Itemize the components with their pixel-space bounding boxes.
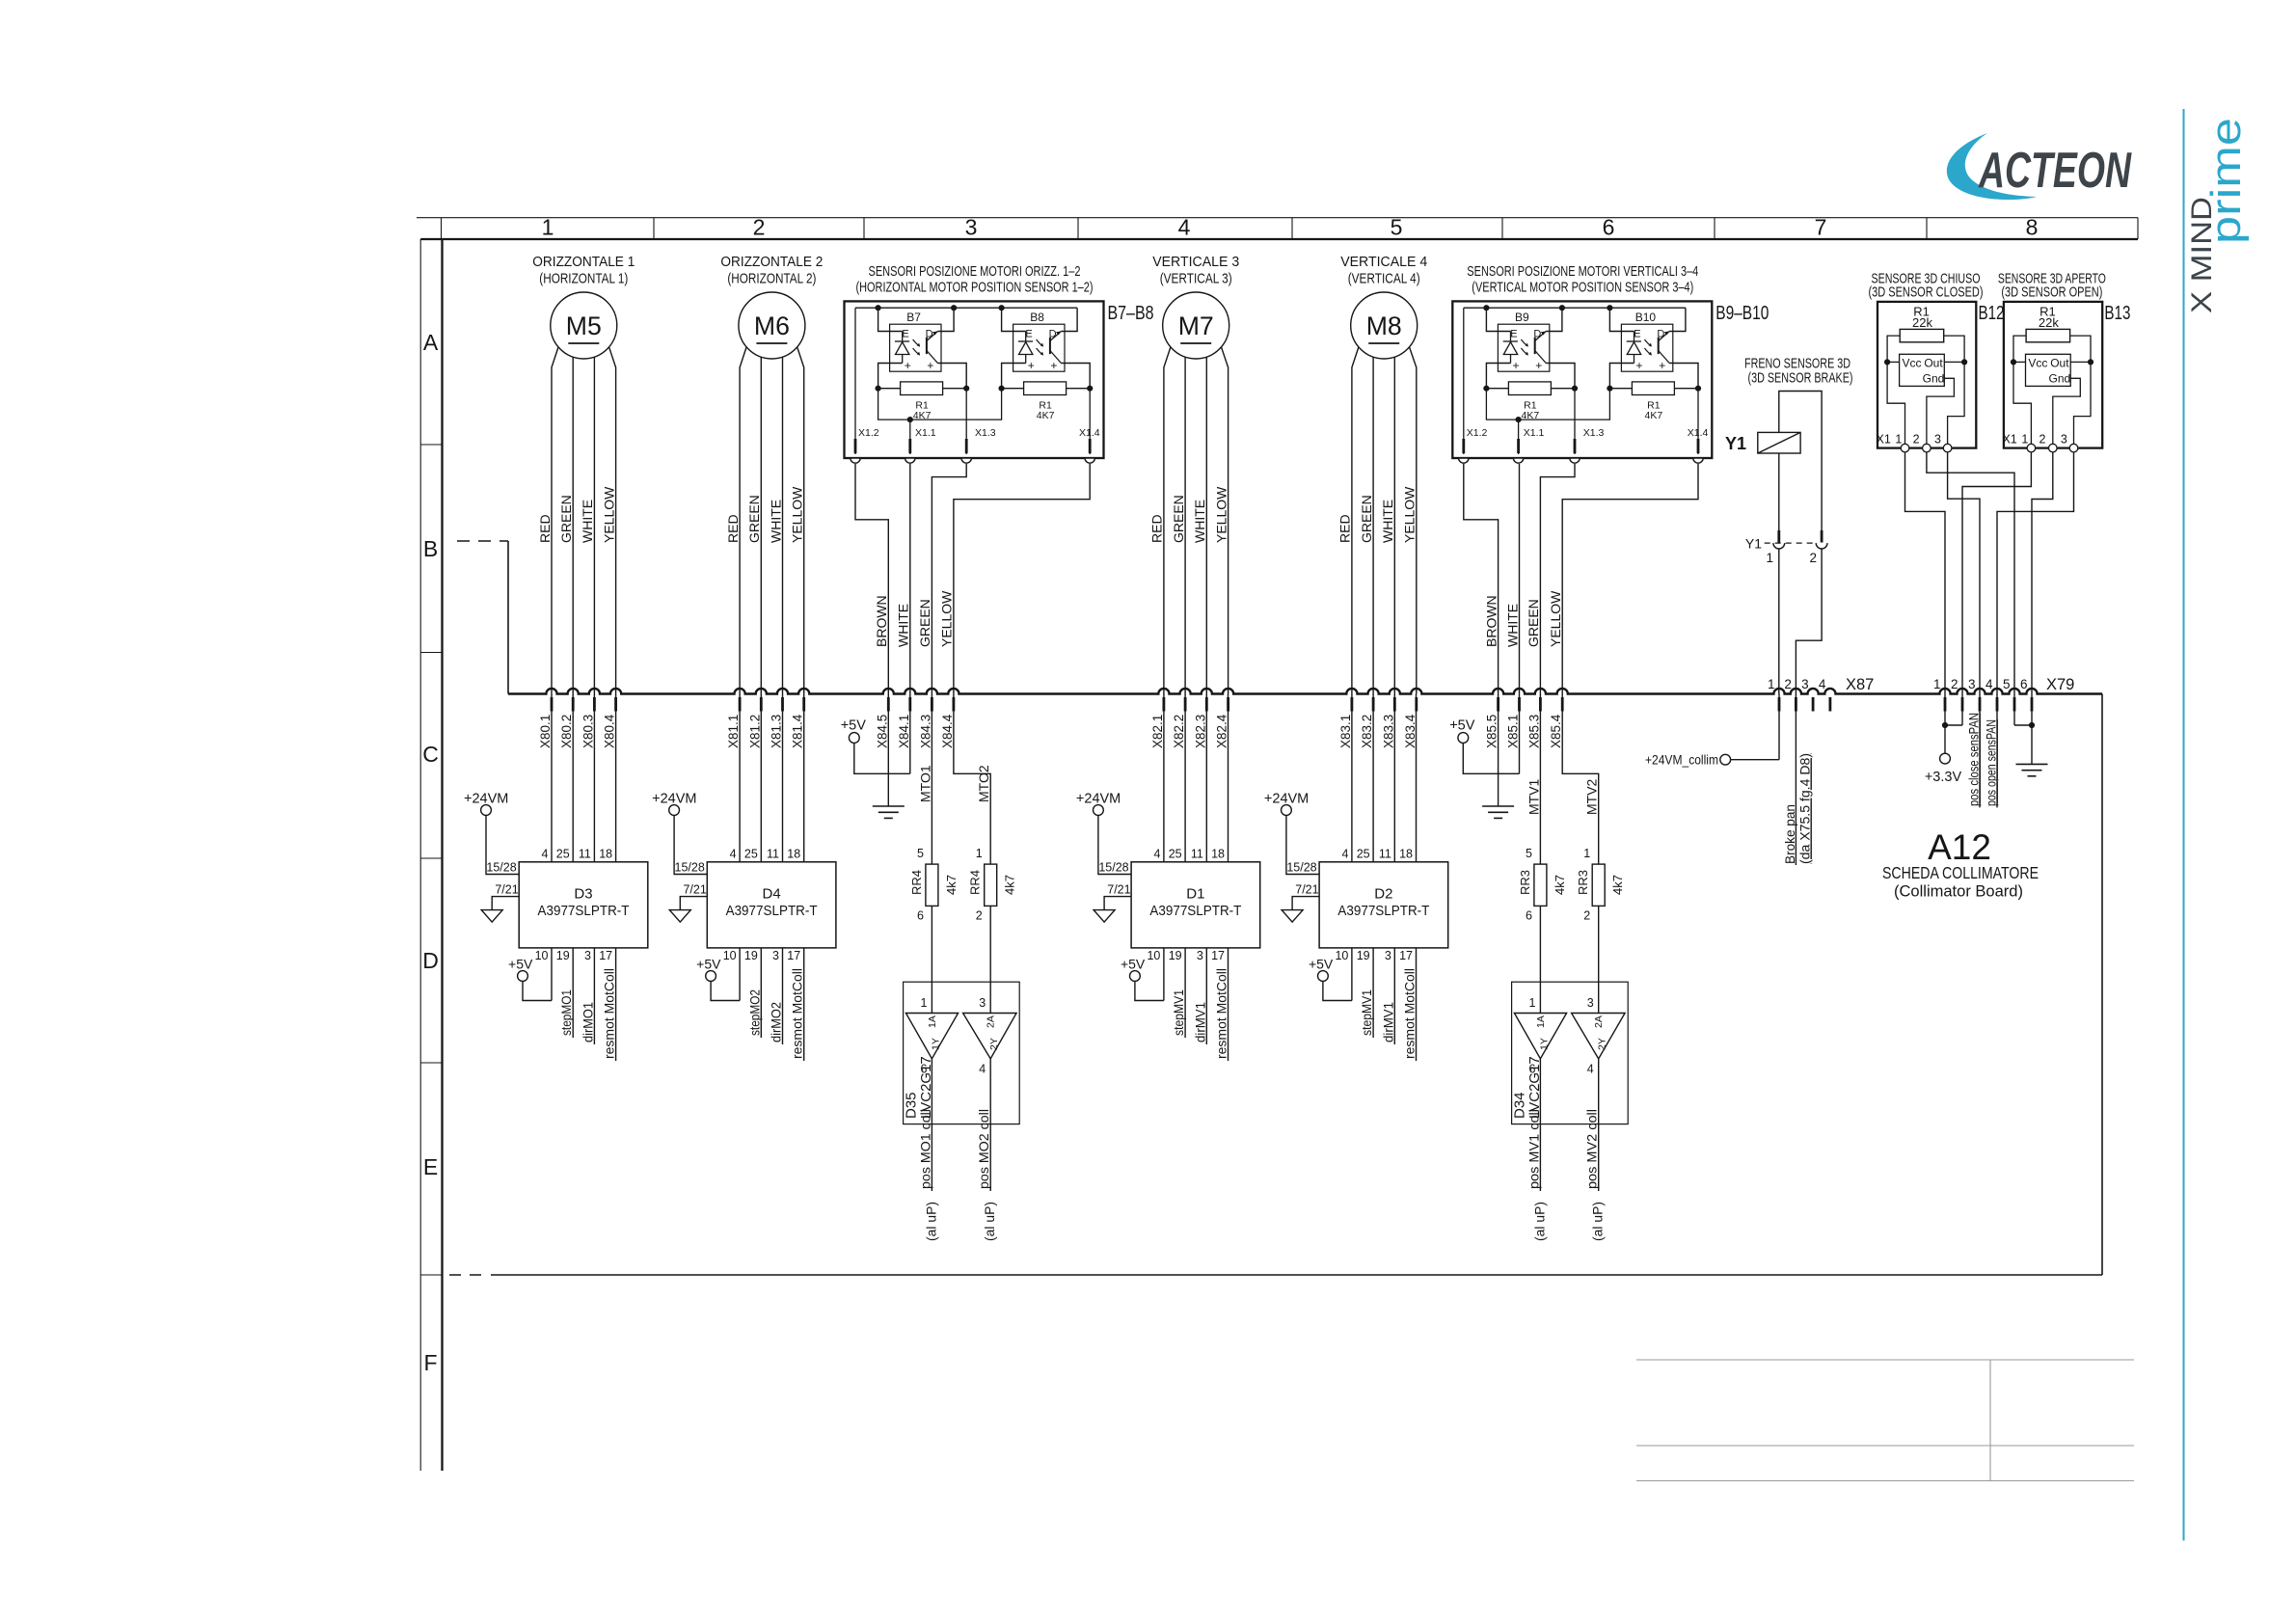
svg-text:RED: RED <box>1149 514 1165 543</box>
svg-text:7/21: 7/21 <box>495 883 518 897</box>
svg-text:MTO1: MTO1 <box>917 765 932 802</box>
wire top supply rail <box>1464 307 1686 309</box>
svg-text:(3D SENSOR OPEN): (3D SENSOR OPEN) <box>2001 284 2102 301</box>
svg-text:3: 3 <box>584 949 591 962</box>
svg-text:X1.2: X1.2 <box>858 427 879 439</box>
svg-text:YELLOW: YELLOW <box>1548 590 1563 647</box>
wire M7 YELLOW lead <box>1222 347 1229 694</box>
svg-text:+5V: +5V <box>508 957 533 972</box>
svg-text:X1.3: X1.3 <box>975 427 996 439</box>
svg-text:resmot MotColl: resmot MotColl <box>1214 968 1229 1059</box>
svg-text:(3D SENSOR CLOSED): (3D SENSOR CLOSED) <box>1869 284 1984 301</box>
LED of B9 <box>1503 340 1518 342</box>
svg-text:1: 1 <box>2021 433 2028 447</box>
svg-text:X80.4: X80.4 <box>603 714 617 748</box>
wire +5V to pin 10 <box>523 981 552 1000</box>
svg-text:X84.4: X84.4 <box>940 714 955 748</box>
svg-text:18: 18 <box>787 848 800 861</box>
svg-text:15/28: 15/28 <box>675 861 705 875</box>
svg-text:(VERTICAL 4): (VERTICAL 4) <box>1348 271 1420 287</box>
svg-text:RED: RED <box>725 514 741 543</box>
svg-text:dirMV1: dirMV1 <box>1380 1002 1395 1042</box>
svg-text:X85.4: X85.4 <box>1549 714 1563 748</box>
svg-text:4K7: 4K7 <box>1037 410 1055 421</box>
A12 board boundary bottom edge <box>491 1274 2102 1276</box>
driver IC D1 A3977SLPTR-T <box>1131 862 1260 948</box>
svg-text:B7–B8: B7–B8 <box>1108 303 1154 324</box>
A12 board boundary left riser and dashed continuation <box>507 541 509 694</box>
wire RR3 to buffer <box>1539 906 1541 1013</box>
wire M7 GREEN lead <box>1184 357 1186 693</box>
svg-text:2: 2 <box>1951 677 1958 691</box>
svg-text:18: 18 <box>1211 848 1225 861</box>
svg-text:X82.1: X82.1 <box>1150 715 1165 748</box>
resistor R1 4K7 of B9 <box>1486 388 1508 390</box>
svg-text:(HORIZONTAL 2): (HORIZONTAL 2) <box>727 271 816 287</box>
wire MTO2 <box>954 694 990 865</box>
svg-text:X87: X87 <box>1846 676 1874 693</box>
wire M5 GREEN lead <box>572 357 574 693</box>
buffer gate 2 of D35 <box>963 1014 1017 1059</box>
svg-text:3: 3 <box>772 949 779 962</box>
svg-text:+: + <box>1535 359 1542 372</box>
wire Y1 coil loop <box>1779 392 1822 532</box>
wire B10 anode to common <box>1609 364 1634 389</box>
ground of D4 (7/21) <box>680 897 707 910</box>
wire pin 18 from bus <box>1416 694 1418 862</box>
wire B10 collector riser to rail <box>1669 308 1686 331</box>
svg-text:SENSORI POSIZIONE MOTORI VERTI: SENSORI POSIZIONE MOTORI VERTICALI 3–4 <box>1467 263 1698 280</box>
svg-text:4: 4 <box>1178 215 1191 240</box>
wire output 1 of D35 (pos MO1 coll) <box>931 1059 932 1191</box>
svg-text:4: 4 <box>979 1063 986 1076</box>
svg-text:1A: 1A <box>927 1015 938 1028</box>
wire Y1 coil to contact 1 <box>1778 453 1780 531</box>
svg-text:19: 19 <box>744 949 758 962</box>
buffer gate 2 of D34 <box>1572 1014 1626 1059</box>
svg-text:15/28: 15/28 <box>486 861 516 875</box>
svg-text:3: 3 <box>1801 677 1809 691</box>
svg-text:F: F <box>423 1350 437 1375</box>
wire B8 emitter to output node <box>1061 364 1090 389</box>
svg-text:X1.3: X1.3 <box>1583 427 1605 439</box>
svg-text:WHITE: WHITE <box>1380 500 1395 543</box>
svg-text:X83.4: X83.4 <box>1403 714 1418 748</box>
resistor R1 4K7 of B7 <box>878 388 901 390</box>
wire X79.3 pos close sensPAN <box>1979 694 1981 808</box>
svg-text:25: 25 <box>744 848 758 861</box>
svg-text:X81.3: X81.3 <box>770 715 784 748</box>
ground of D1 (7/21) <box>1104 897 1131 910</box>
wire stepMO2 (pin 19) <box>760 948 762 1038</box>
wire pin X1.2 to bus <box>1464 464 1499 694</box>
svg-text:4: 4 <box>1985 677 1993 691</box>
wire M7 RED lead <box>1164 347 1171 694</box>
svg-text:C: C <box>422 742 439 767</box>
wire R1 left to Vcc rail <box>1887 336 1904 448</box>
svg-text:X80.2: X80.2 <box>559 715 574 748</box>
wire MTV1 <box>1539 694 1541 865</box>
wire stepMV1 (pin 19) <box>1372 948 1374 1038</box>
wire +5V to connector <box>1463 743 1519 773</box>
wire pin 11 from bus <box>782 694 784 862</box>
wire +24VM to pin 15/28 <box>1098 815 1131 874</box>
svg-text:X82.4: X82.4 <box>1215 714 1229 748</box>
svg-text:(al uP): (al uP) <box>923 1202 938 1241</box>
svg-text:X81.1: X81.1 <box>726 715 741 748</box>
svg-text:3: 3 <box>1197 949 1203 962</box>
svg-text:X1.4: X1.4 <box>1079 427 1100 439</box>
svg-text:4k7: 4k7 <box>1553 875 1567 895</box>
wire M8 WHITE lead <box>1393 357 1395 693</box>
svg-text:11: 11 <box>767 848 779 861</box>
svg-text:stepMV1: stepMV1 <box>1359 989 1374 1036</box>
svg-text:22k: 22k <box>2039 315 2059 330</box>
svg-text:15/28: 15/28 <box>1098 861 1128 875</box>
wire B13 pin3 to X79.4 <box>1997 452 2074 694</box>
svg-text:10: 10 <box>535 949 549 962</box>
svg-text:+: + <box>1635 359 1642 372</box>
svg-text:A: A <box>423 330 439 355</box>
svg-text:1: 1 <box>542 215 554 240</box>
wire RR4 to buffer <box>931 906 932 1013</box>
svg-text:ACTEON: ACTEON <box>1978 143 2132 199</box>
wire +5V to pin 10 <box>711 981 740 1000</box>
svg-text:2A: 2A <box>1593 1015 1605 1028</box>
wire pin 4 from bus <box>1351 694 1353 862</box>
wire M5 RED lead <box>552 347 558 694</box>
svg-text:resmot MotColl: resmot MotColl <box>602 968 617 1059</box>
buffer IC D35 LVC2G17 <box>904 982 1020 1123</box>
svg-text:X85.3: X85.3 <box>1526 715 1541 748</box>
svg-text:1: 1 <box>1766 551 1773 565</box>
svg-text:+5V: +5V <box>841 718 867 734</box>
svg-text:BROWN: BROWN <box>874 595 889 647</box>
svg-text:19: 19 <box>1169 949 1182 962</box>
svg-text:RED: RED <box>537 514 553 543</box>
svg-text:resmot MotColl: resmot MotColl <box>790 968 805 1059</box>
svg-text:D: D <box>422 948 439 973</box>
driver IC D2 A3977SLPTR-T <box>1319 862 1448 948</box>
wire B10 output drop <box>1697 389 1699 454</box>
svg-text:WHITE: WHITE <box>768 500 783 543</box>
light arrows of B8 <box>1037 339 1043 346</box>
svg-text:A12: A12 <box>1928 827 1991 867</box>
buffer IC D34 LVC2G17 <box>1512 982 1629 1123</box>
svg-text:WHITE: WHITE <box>1504 604 1520 647</box>
drawing frame <box>417 217 2138 219</box>
svg-text:(al uP): (al uP) <box>1531 1202 1547 1241</box>
wire M6 RED lead <box>740 347 746 694</box>
wire Y1 contact 1 to X87.1 <box>1778 549 1780 694</box>
svg-text:D2: D2 <box>1374 886 1392 903</box>
svg-text:4k7: 4k7 <box>1003 875 1017 895</box>
wire pin 4 from bus <box>739 694 741 862</box>
svg-text:X84.3: X84.3 <box>918 715 932 748</box>
svg-text:pos MO2 coll: pos MO2 coll <box>976 1109 991 1189</box>
light arrows of B10 <box>1644 339 1651 346</box>
sensor element box of B13 <box>2026 354 2071 386</box>
wire +5V to connector <box>854 743 910 773</box>
+24VM_collim terminal <box>1720 754 1731 765</box>
svg-text:X1.1: X1.1 <box>1524 427 1545 439</box>
svg-text:3: 3 <box>1587 996 1594 1010</box>
svg-text:17: 17 <box>599 949 612 962</box>
wire output 2 of D35 (pos MO2 coll) <box>989 1059 991 1191</box>
wire M8 RED lead <box>1352 347 1359 694</box>
svg-text:B7: B7 <box>906 311 921 324</box>
svg-text:6: 6 <box>2020 677 2028 691</box>
motor M5 <box>551 292 617 359</box>
svg-text:X1.4: X1.4 <box>1688 427 1709 439</box>
wire M6 YELLOW lead <box>797 347 804 694</box>
ground <box>2016 763 2048 765</box>
wire X79.4 pos open sensPAN <box>1996 694 1998 808</box>
svg-text:GREEN: GREEN <box>1171 495 1186 543</box>
wire pin 4 from bus <box>1163 694 1165 862</box>
svg-text:2: 2 <box>753 215 766 240</box>
wire RR3 to buffer <box>1598 906 1600 1013</box>
svg-text:YELLOW: YELLOW <box>601 486 616 543</box>
svg-text:M5: M5 <box>566 311 602 340</box>
wire pin 25 from bus <box>572 694 574 862</box>
svg-text:A3977SLPTR-T: A3977SLPTR-T <box>1149 903 1241 919</box>
svg-text:D1: D1 <box>1186 886 1204 903</box>
svg-text:6: 6 <box>1603 215 1615 240</box>
svg-text:1: 1 <box>976 847 983 860</box>
svg-text:+: + <box>1659 359 1665 372</box>
wire +24VM to pin 15/28 <box>486 815 519 874</box>
svg-text:X1: X1 <box>2002 433 2016 447</box>
svg-text:17: 17 <box>787 949 800 962</box>
relay coil Y1 <box>1758 432 1800 453</box>
wire Y1 contact 2 to X87.2 <box>1796 549 1822 694</box>
wire M6 GREEN lead <box>760 357 762 693</box>
svg-text:6: 6 <box>917 909 924 923</box>
wire dirMV1 (pin 3) <box>1205 948 1207 1044</box>
wire pin 18 from bus <box>1228 694 1229 862</box>
svg-text:2: 2 <box>1913 433 1920 447</box>
wire pin 11 from bus <box>1393 694 1395 862</box>
wire output 1 of D34 (pos MV1 coll) <box>1539 1059 1541 1191</box>
wire B12 pin1 to X79.1 <box>1905 452 1946 694</box>
svg-text:pos MV1 coll: pos MV1 coll <box>1526 1109 1541 1189</box>
optocoupler B7 <box>890 324 941 371</box>
svg-text:2Y: 2Y <box>1597 1038 1608 1050</box>
LED of B10 <box>1627 340 1641 342</box>
svg-text:2: 2 <box>976 909 983 923</box>
svg-text:Y1: Y1 <box>1725 434 1746 453</box>
wire resmot MotColl (pin 17) <box>1228 948 1229 1061</box>
svg-text:5: 5 <box>1391 215 1403 240</box>
phototransistor of B10 <box>1658 338 1660 354</box>
svg-text:X83.3: X83.3 <box>1381 715 1395 748</box>
wire B12 pin2 to X79.5 <box>1927 452 2014 694</box>
svg-text:1A: 1A <box>1535 1015 1547 1028</box>
svg-text:A3977SLPTR-T: A3977SLPTR-T <box>726 903 818 919</box>
svg-text:E: E <box>423 1154 438 1179</box>
svg-text:10: 10 <box>1147 949 1160 962</box>
wire B10 emitter to output node <box>1669 364 1698 389</box>
ground of D3 (7/21) <box>492 897 519 910</box>
svg-text:4: 4 <box>542 848 549 861</box>
svg-text:(HORIZONTAL 1): (HORIZONTAL 1) <box>539 271 628 287</box>
wire B13 pin2 to X79.6 <box>2032 452 2053 694</box>
svg-text:4: 4 <box>730 848 737 861</box>
svg-text:7/21: 7/21 <box>683 883 706 897</box>
svg-text:RR4: RR4 <box>968 870 983 895</box>
wire B8 anode to common <box>1002 364 1026 389</box>
svg-text:5: 5 <box>917 847 924 860</box>
svg-text:1: 1 <box>1528 996 1535 1010</box>
svg-text:resmot MotColl: resmot MotColl <box>1402 968 1418 1059</box>
svg-text:10: 10 <box>723 949 737 962</box>
svg-text:dirMV1: dirMV1 <box>1192 1002 1207 1042</box>
svg-text:1: 1 <box>920 996 927 1010</box>
relay contact Y1 <box>1777 530 1780 543</box>
wire pin 25 from bus <box>1372 694 1374 862</box>
svg-text:1Y: 1Y <box>930 1038 941 1050</box>
wire R1 left to Vcc rail <box>2013 336 2031 448</box>
svg-text:7: 7 <box>1815 215 1827 240</box>
wire +5V to pin 10 <box>1323 981 1352 1000</box>
ground <box>887 694 889 807</box>
svg-text:BROWN: BROWN <box>1483 595 1499 647</box>
motor M7 <box>1163 292 1229 359</box>
svg-text:7/21: 7/21 <box>1295 883 1318 897</box>
svg-text:dirMO2: dirMO2 <box>769 1002 784 1042</box>
wire pin 18 from bus <box>803 694 805 862</box>
svg-text:GREEN: GREEN <box>746 495 762 543</box>
wire dirMO2 (pin 3) <box>782 948 784 1044</box>
wire pin 11 from bus <box>1205 694 1207 862</box>
svg-text:6: 6 <box>1526 909 1532 923</box>
svg-text:E: E <box>1025 329 1032 340</box>
title block table <box>1636 1359 2134 1361</box>
svg-text:3: 3 <box>979 996 986 1010</box>
resistor R1 4K7 of B8 <box>1002 388 1024 390</box>
wire pin X1.3 to bus <box>1540 464 1575 694</box>
svg-text:4: 4 <box>1341 848 1348 861</box>
A12 board boundary bus line with connector bumps <box>508 689 2102 694</box>
3D sensor B13 <box>2004 302 2102 448</box>
svg-text:(al uP): (al uP) <box>1590 1202 1606 1241</box>
svg-text:GREEN: GREEN <box>917 599 932 647</box>
svg-text:E: E <box>1510 329 1517 340</box>
svg-text:18: 18 <box>1399 848 1413 861</box>
svg-text:SCHEDA COLLIMATORE: SCHEDA COLLIMATORE <box>1882 863 2039 882</box>
svg-text:15/28: 15/28 <box>1286 861 1316 875</box>
wire resmot MotColl (pin 17) <box>803 948 805 1061</box>
svg-text:Vcc: Vcc <box>2028 357 2047 370</box>
svg-text:10: 10 <box>1335 949 1348 962</box>
buffer gate 1 of D35 <box>905 1014 958 1059</box>
svg-text:MTO2: MTO2 <box>976 765 991 802</box>
svg-text:1Y: 1Y <box>1538 1038 1550 1050</box>
svg-text:MTV2: MTV2 <box>1584 778 1600 815</box>
svg-text:X1.1: X1.1 <box>915 427 936 439</box>
wire X79.1+2 to +3.3V <box>1944 694 1946 754</box>
svg-text:B: B <box>423 536 438 561</box>
svg-text:pos MV2 coll: pos MV2 coll <box>1584 1109 1600 1189</box>
svg-text:+3.3V: +3.3V <box>1925 770 1962 785</box>
wire pin X1.4 to bus <box>954 464 1090 694</box>
wire pin X1.4 to bus <box>1562 464 1698 694</box>
wire B9 anode to common <box>1486 364 1510 389</box>
wire pin 25 from bus <box>1184 694 1186 862</box>
wire B12 pin3 to X79.3 <box>1948 452 1980 694</box>
svg-text:M6: M6 <box>754 311 790 340</box>
wire bottom common rail <box>1486 389 1609 420</box>
svg-text:+: + <box>1050 359 1057 372</box>
svg-text:19: 19 <box>556 949 570 962</box>
svg-text:RR3: RR3 <box>1576 870 1590 895</box>
svg-text:stepMO2: stepMO2 <box>746 989 762 1036</box>
wire X87.1 to +24VM_collim <box>1778 694 1780 760</box>
svg-text:3: 3 <box>2061 433 2067 447</box>
svg-text:Out: Out <box>1924 357 1943 370</box>
svg-text:(al uP): (al uP) <box>982 1202 997 1241</box>
A12 board boundary right edge <box>2101 694 2103 1276</box>
svg-text:ORIZZONTALE 1: ORIZZONTALE 1 <box>532 254 635 270</box>
svg-text:B9: B9 <box>1515 311 1529 324</box>
wire pin 18 from bus <box>615 694 617 862</box>
svg-text:B10: B10 <box>1635 311 1657 324</box>
svg-text:(VERTICAL MOTOR POSITION SENSO: (VERTICAL MOTOR POSITION SENSOR 3–4) <box>1472 280 1693 296</box>
svg-text:GREEN: GREEN <box>1526 599 1541 647</box>
wire stepMO1 (pin 19) <box>572 948 574 1038</box>
wire X1.2 riser <box>1463 308 1465 454</box>
svg-text:11: 11 <box>579 848 591 861</box>
wire RR4 to buffer <box>989 906 991 1013</box>
svg-text:1: 1 <box>1895 433 1902 447</box>
svg-text:X1.2: X1.2 <box>1467 427 1488 439</box>
svg-text:X81.2: X81.2 <box>747 715 762 748</box>
motor M8 <box>1351 292 1418 359</box>
wire M5 WHITE lead <box>593 357 595 693</box>
LED of B7 <box>895 340 909 342</box>
svg-text:+5V: +5V <box>1309 957 1334 972</box>
svg-text:Out: Out <box>2050 357 2069 370</box>
svg-text:8: 8 <box>2026 215 2039 240</box>
svg-text:YELLOW: YELLOW <box>790 486 805 543</box>
svg-text:prime: prime <box>2202 118 2250 244</box>
wire MTV2 <box>1562 694 1599 865</box>
wire X87.2 Broke pan <box>1795 694 1796 866</box>
svg-text:11: 11 <box>1379 848 1391 861</box>
wire M5 YELLOW lead <box>609 347 616 694</box>
sensor element box of B12 <box>1900 354 1945 386</box>
wire B7 cathode drop from rail <box>876 305 881 311</box>
svg-text:X81.4: X81.4 <box>791 714 805 748</box>
wire stepMV1 (pin 19) <box>1184 948 1186 1038</box>
wire B13 pin1 to X79.2 <box>1962 452 2031 694</box>
svg-text:1: 1 <box>1583 847 1590 860</box>
svg-text:+5V: +5V <box>696 957 721 972</box>
svg-text:1: 1 <box>1768 677 1775 691</box>
wire R1 right to Out <box>2070 336 2091 448</box>
svg-text:M7: M7 <box>1178 311 1214 340</box>
wire pin 11 from bus <box>593 694 595 862</box>
phototransistor of B7 <box>926 338 928 354</box>
wire resmot MotColl (pin 17) <box>1416 948 1418 1061</box>
svg-text:+: + <box>905 359 911 372</box>
wire M8 GREEN lead <box>1372 357 1374 693</box>
svg-text:+5V: +5V <box>1121 957 1146 972</box>
svg-text:X85.1: X85.1 <box>1506 715 1521 748</box>
svg-text:5: 5 <box>2003 677 2011 691</box>
svg-text:18: 18 <box>599 848 612 861</box>
